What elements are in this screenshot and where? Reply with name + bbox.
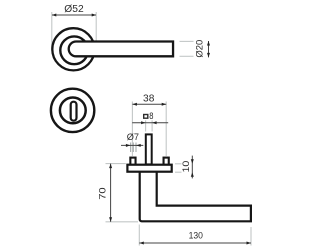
svg-text:Ø7: Ø7 [127,132,139,143]
10 lower arrowhead (pointing up) [191,172,194,177]
130 right extension line [250,227,252,246]
10 top extension line [175,163,182,165]
38 left arrowhead [132,103,137,106]
dia7 right extension tick [135,143,137,153]
svg-text:38: 38 [143,93,155,104]
38 right extension line [165,102,167,157]
square8 left arrowhead (pointing right) [141,121,146,124]
38 right arrowhead [162,103,167,106]
left screw lug [130,158,135,166]
handle L profile [140,171,251,221]
rose plate side view [127,165,171,172]
dia20 bottom extension line [180,55,194,57]
10 upper arrowhead (pointing down) [191,159,194,164]
dia7 left arrowhead (pointing right) [126,144,130,147]
square symbol of square8 label [144,115,148,119]
front view: rose and lever [52,12,173,70]
dia52 dimension line [52,14,96,16]
lever bar capsule [69,42,173,57]
keyhole slot [71,102,77,121]
dia7 centre tick [132,143,134,153]
svg-text:70: 70 [98,187,108,199]
dimension square8 [132,111,168,132]
square8 right arrowhead (pointing left) [152,121,157,124]
130 left extension line [138,225,140,246]
dia7 dimension line [121,144,143,146]
dimension 70 [98,164,138,222]
svg-text:Ø52: Ø52 [64,4,84,15]
square8 right extension line [151,120,153,131]
svg-text:8: 8 [149,111,153,121]
dia20 top extension line [180,40,194,42]
escutcheon inner circle [60,98,86,124]
square8 dimension line [132,122,168,124]
square8 left extension line [145,120,147,131]
svg-text:130: 130 [189,231,203,242]
dia7 left extension tick [130,143,132,153]
130 left arrowhead [139,242,144,245]
70 dimension line [110,164,112,222]
right screw lug [164,158,169,166]
dia20 dimension line [208,41,210,57]
70 bottom arrowhead [109,217,112,222]
dia20 top arrowhead [207,41,210,46]
lever neck circle [60,36,88,64]
38 left extension line [131,102,133,157]
dimension dia7 [121,132,143,152]
130 dimension line [139,242,251,244]
side view spindle [146,134,152,164]
dimension 10 [175,156,194,179]
extension line right of dia52 [95,12,97,51]
dimension dia20 [180,40,211,58]
extension line left of dia52 [51,12,53,51]
dimension 130 [139,225,251,246]
10 dimension line [191,156,193,179]
70 top arrowhead [109,164,112,169]
dia52 right arrowhead [92,14,97,17]
rose outer circle [52,28,94,70]
dia7 right arrowhead (pointing left) [136,144,141,147]
dimension 38 [132,93,166,156]
70 top extension line [106,163,126,165]
svg-text:10: 10 [181,161,191,173]
10 bottom extension line [175,171,182,173]
dia52 left arrowhead [52,14,57,17]
70 bottom extension line [106,221,139,223]
130 right arrowhead [247,242,252,245]
svg-text:Ø20: Ø20 [195,40,206,58]
dimension dia52 [52,4,96,16]
38 dimension line [132,103,166,105]
dia20 bottom arrowhead [207,53,210,58]
escutcheon outer circle [51,89,94,132]
